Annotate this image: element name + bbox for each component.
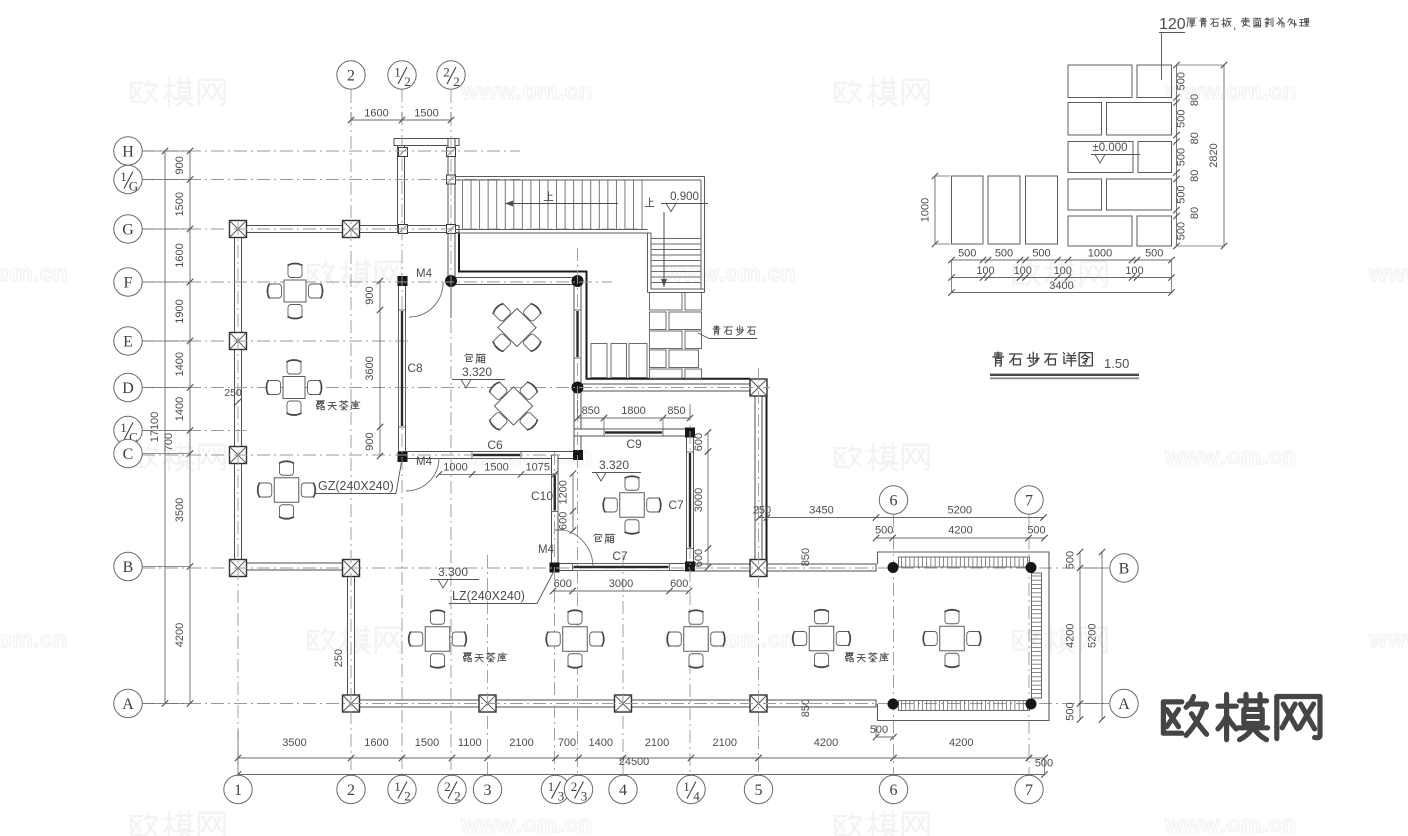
svg-text:1000: 1000 [443,462,467,474]
svg-text:500: 500 [1145,248,1163,260]
svg-text:GZ(240X240): GZ(240X240) [318,479,394,493]
porch post [447,148,456,157]
svg-text:2820: 2820 [1208,143,1220,167]
eave outline grid5 [766,396,768,564]
wall row B left [235,563,352,570]
svg-text:1: 1 [394,65,401,80]
svg-text:250: 250 [753,505,771,517]
svg-text:www.om.cn: www.om.cn [1164,443,1296,469]
column 1/C-col [230,447,247,464]
svg-text:C9: C9 [626,437,642,451]
svg-text:100: 100 [976,265,994,277]
grid circle 1/4 bottom [677,775,705,803]
dimension 850 1800 850 C9 [578,417,691,419]
svg-text:www.om.cn: www.om.cn [0,260,68,286]
svg-text:1: 1 [120,169,127,184]
svg-text:1400: 1400 [174,352,186,376]
wall row A [348,700,877,707]
svg-text:2: 2 [444,779,451,794]
grid line 4 [622,555,624,776]
svg-text:B: B [1119,561,1130,578]
svg-text:H: H [122,144,134,161]
svg-text:80: 80 [1189,170,1201,182]
svg-text:E: E [123,334,133,351]
dimension 250 3450 5200 [759,517,1044,519]
table C7 room [620,493,645,518]
svg-text:1: 1 [234,782,242,799]
corner post LZ [685,562,695,572]
svg-text:100: 100 [1054,265,1072,277]
label baoxiang C7 [594,534,615,544]
wall left grid1 [235,226,242,572]
pavilion outline [878,552,1050,721]
svg-text:5200: 5200 [948,505,972,517]
svg-text:80: 80 [1189,207,1201,219]
svg-text:4200: 4200 [174,623,186,647]
grid circle C left [114,439,142,467]
column 2/A [343,695,360,712]
svg-text:4200: 4200 [1065,624,1077,648]
svg-text:500: 500 [1035,758,1053,770]
detail dim 1000 left [934,176,936,244]
column 2/B [343,560,360,577]
svg-text:4200: 4200 [948,525,972,537]
svg-text:C8: C8 [407,361,423,375]
grid circle F left [114,268,142,296]
wall grid 2/3 [574,278,581,459]
svg-text:7: 7 [1025,493,1033,510]
svg-text:2: 2 [454,789,461,804]
door M4 C7-room [564,530,593,567]
dimension C8 window 900 3600 900 [379,281,381,456]
wall joint dot [445,275,457,287]
svg-text:2100: 2100 [645,737,669,749]
svg-text:C: C [123,446,134,463]
grid circle 6 bottom [879,775,907,803]
svg-text:www.om.cn: www.om.cn [460,811,592,836]
window C9 [604,429,663,436]
dimension 4200 4200 bottom right [759,757,1030,759]
grid row F [142,281,612,283]
svg-text:600: 600 [670,578,688,590]
grid row A [142,703,1108,705]
svg-text:3.320: 3.320 [462,365,492,379]
svg-text:600: 600 [693,549,705,567]
stair treads upper [463,180,643,230]
dimension C9 side 600 [707,433,709,452]
svg-text:1600: 1600 [364,737,388,749]
wall C8 left [399,281,406,459]
svg-text:600: 600 [554,578,572,590]
svg-text:,: , [1233,18,1236,32]
grid line 7 [1028,514,1030,776]
svg-text:3: 3 [558,789,565,804]
grid line 2/2 [450,90,452,776]
detail stone blocks [1068,65,1172,246]
pavilion railing top [899,557,1030,567]
svg-text:C7: C7 [612,549,628,563]
svg-text:A: A [122,696,134,713]
grid row 1/C [142,430,250,432]
svg-text:24500: 24500 [619,756,650,768]
grid circle A left [114,689,142,717]
svg-text:3500: 3500 [282,737,306,749]
corner post LZ [573,450,583,460]
grid line 5 [758,368,760,776]
corner post LZ [685,428,695,438]
svg-text:C7: C7 [668,498,684,512]
pavilion post dot [1026,562,1037,573]
label terrace hall [317,401,360,410]
wall row B right [694,564,877,571]
table hall 1 [284,280,306,302]
column 5/A [750,695,767,712]
svg-text:6: 6 [890,782,898,799]
window wall 2/3 [574,310,581,358]
svg-text:100: 100 [1125,265,1143,277]
svg-text:2100: 2100 [509,737,533,749]
svg-text:1500: 1500 [174,192,186,216]
svg-text:www.om.cn: www.om.cn [460,78,592,104]
column 5/B [750,560,767,577]
svg-text:F: F [124,275,133,292]
grid row H [142,150,520,152]
column 5/D [750,379,767,396]
door gap M4 grid1/3 [552,531,557,564]
column 3/A [479,695,496,712]
svg-text:www.om.cn: www.om.cn [663,626,795,652]
detail slabs left [952,176,1058,244]
svg-text:M4: M4 [416,456,433,468]
window C6 [472,452,521,459]
svg-text:M4: M4 [538,544,555,556]
svg-text:250: 250 [224,387,242,399]
grid circle 2 bottom [337,775,365,803]
svg-text:1800: 1800 [621,405,645,417]
grid row C [142,454,560,456]
label baoxiang C8 [465,354,486,364]
detail dim bottom 500s [952,259,1172,261]
grid circle 1/2 bottom [388,775,416,803]
wall row G [235,226,460,233]
grid circle 1/2 top [388,61,416,89]
grid row D [142,387,770,389]
grid line 3 [487,555,489,776]
svg-text:500: 500 [1176,222,1188,240]
svg-text:A: A [1118,696,1130,713]
svg-text:500: 500 [1176,72,1188,90]
column 2/G [343,221,360,238]
pavilion railing right [1032,573,1042,698]
label terrace mid [464,653,507,662]
detail dim 3400 [952,292,1172,294]
svg-text:700: 700 [163,433,175,451]
svg-text:100: 100 [1014,265,1032,277]
svg-text:1500: 1500 [484,462,508,474]
grid line 1 [237,222,239,776]
table terrace 2 [563,627,588,652]
grid circle 4 bottom [609,775,637,803]
left dimension chain [189,151,191,704]
dimension C7 right 3000 600 [707,452,709,568]
porch left wall [398,139,405,233]
grid circle B right [1078,567,1109,569]
svg-text:500: 500 [1027,525,1045,537]
svg-text:4200: 4200 [949,737,973,749]
corner post LZ [550,563,560,573]
door gap M4 row C [406,452,439,457]
svg-text:600: 600 [693,433,705,451]
dimension pavilion right 5200 [1101,552,1103,720]
window C8 [399,310,406,427]
porch top wall [394,139,459,146]
porch post [447,175,456,184]
porch right wall [448,139,455,282]
grid line 6 [893,514,895,776]
dimension pavilion right 500 4200 500 [1079,552,1081,720]
svg-text:www.om.cn: www.om.cn [1164,811,1296,836]
svg-text:5200: 5200 [1087,624,1099,648]
column 1/E [230,333,247,350]
svg-text:250: 250 [333,649,345,667]
svg-text:1: 1 [120,420,127,435]
svg-text:1.50: 1.50 [1104,356,1129,371]
svg-text:1200: 1200 [558,480,570,504]
label terrace right [846,653,889,662]
svg-text:www.om.cn: www.om.cn [0,626,68,652]
grid circle 1/C left [114,416,142,444]
stair outline [455,176,705,178]
dimension C10 1200 600 [572,474,574,531]
svg-text:G: G [122,222,134,239]
dimension 17100 overall [164,151,166,704]
detail title [993,352,1092,367]
svg-text:2: 2 [404,789,411,804]
svg-text:2: 2 [347,68,355,85]
wall joint dot [572,275,584,287]
svg-text:3.320: 3.320 [599,458,629,472]
svg-text:850: 850 [800,699,812,717]
detail dim right 500/80 [1176,65,1178,246]
grid circle 2/2 top [437,61,465,89]
svg-text:850: 850 [667,405,685,417]
grid circle 2/2 bottom [438,775,466,803]
svg-text:500: 500 [1032,248,1050,260]
grid circle H left [114,137,142,165]
bottom dimension chain [238,757,759,759]
column 1/G-col [230,221,247,238]
stair label up 1 [544,192,553,201]
grid circle 7 middle [1015,486,1043,514]
svg-text:1000: 1000 [1088,248,1112,260]
grid line 2/3 [577,248,579,776]
wall joint dot [572,382,584,394]
svg-text:1500: 1500 [415,737,439,749]
svg-text:2: 2 [443,65,450,80]
corner post LZ [398,452,408,462]
grid circle 7 bottom [1015,775,1043,803]
svg-text:500: 500 [995,248,1013,260]
grid row E [142,340,412,342]
svg-text:1: 1 [548,779,555,794]
wall row D [581,384,750,391]
svg-text:850: 850 [582,405,600,417]
svg-text:2100: 2100 [713,737,737,749]
grid line 1/4 [689,408,691,776]
dimension 500 4200 500 pavilion top [876,537,1045,539]
svg-text:900: 900 [364,286,376,304]
svg-text:B: B [123,559,134,576]
svg-text:80: 80 [1189,94,1201,106]
stair down line [663,212,665,287]
grid line 1/3 [554,452,556,776]
stair treads lower [651,239,701,283]
dimension 24500 overall [238,774,1045,776]
svg-text:1600: 1600 [364,108,388,120]
svg-text:6: 6 [890,493,898,510]
grid row B [142,567,1108,569]
svg-text:850: 850 [800,548,812,566]
table hall 2 [283,377,305,399]
porch post [399,225,408,234]
grid line 1/2 [401,89,403,776]
svg-text:120: 120 [1159,16,1186,33]
svg-text:500: 500 [875,525,893,537]
svg-text:3400: 3400 [1049,280,1073,292]
svg-text:M4: M4 [416,268,433,280]
svg-text:80: 80 [1189,132,1201,144]
wall C7 bottom [552,564,694,571]
grid circle G left [114,215,142,243]
svg-text:3500: 3500 [174,498,186,522]
stair up arrow [505,203,618,205]
wall grid 5 [755,384,762,567]
grid row 1/G [142,179,520,181]
pavilion railing bottom [899,701,1030,711]
svg-text:2: 2 [404,74,411,89]
eave outline stairs-south [459,233,750,379]
window C10 [552,474,559,512]
svg-text:4200: 4200 [814,737,838,749]
grid circle 1/G left [114,165,142,193]
table terrace 1 [425,627,450,652]
svg-text:500: 500 [870,724,888,736]
corner post LZ [398,276,408,286]
dimension 500 bottom right [1029,757,1045,759]
svg-text:C6: C6 [487,438,503,452]
logo oumuwang [1163,694,1320,739]
svg-text:3: 3 [581,789,588,804]
stone path bricks [650,293,702,379]
svg-text:0.900: 0.900 [670,191,699,203]
grid circle 1 bottom [224,775,252,803]
svg-text:3450: 3450 [809,505,833,517]
dimension 500 bottom pavilion [876,736,894,738]
svg-text:3.300: 3.300 [438,565,468,579]
grid circle A right [1078,703,1109,705]
pavilion post dot [1026,699,1037,710]
detail dim bottom 100s [952,277,1172,279]
grid line 2 [350,90,352,776]
porch post [447,225,456,234]
door M4 row F [409,283,443,317]
table terrace 4 [809,626,834,651]
svg-text:LZ(240X240): LZ(240X240) [452,589,525,603]
svg-text:1: 1 [394,779,401,794]
table C8 room 1 [477,287,558,368]
table terrace 5 [940,626,965,651]
svg-text:1075: 1075 [526,462,550,474]
svg-text:2: 2 [571,779,578,794]
pavilion post dot [888,562,899,573]
column 1/B [230,560,247,577]
svg-text:17100: 17100 [149,412,161,443]
svg-text:G: G [129,179,138,194]
svg-text:1400: 1400 [589,737,613,749]
svg-text:www.om.cn: www.om.cn [1368,260,1408,286]
svg-text:1600: 1600 [174,243,186,267]
table C8 room 2 [473,366,554,447]
svg-text:D: D [122,380,134,397]
dimension C6 1000 1500 1075 [439,473,555,475]
svg-text:1400: 1400 [174,397,186,421]
wall C9 top [574,429,694,436]
svg-text:4: 4 [619,782,627,799]
wall row F C8-top [449,278,581,285]
svg-text:2: 2 [453,74,460,89]
svg-text:500: 500 [1065,702,1077,720]
grid circle 3 bottom [473,775,501,803]
window C7 bottom [573,564,670,571]
svg-text:900: 900 [364,432,376,450]
door M4 row C [406,458,439,491]
grid row G [142,228,640,230]
window C7 right [687,452,694,549]
label stone path [713,326,756,336]
dimension C7 bottom 600 3000 600 [553,590,689,592]
svg-text:500: 500 [958,248,976,260]
grid circle 2/3 bottom [564,775,592,803]
grid circle 1/3 bottom [541,775,569,803]
svg-text:3600: 3600 [364,356,376,380]
grid circle 6 middle [879,486,907,514]
svg-text:1900: 1900 [174,299,186,323]
table terrace 3 [684,627,709,652]
grid circle D left [114,373,142,401]
wall C7 right [687,429,694,571]
grid circle B left [114,552,142,580]
svg-text:3000: 3000 [693,488,705,512]
porch post [399,148,408,157]
svg-text:1100: 1100 [458,737,482,749]
svg-text:500: 500 [1176,110,1188,128]
table hall 3 [274,478,299,503]
svg-text:500: 500 [1176,185,1188,203]
svg-text:3000: 3000 [609,578,633,590]
svg-text:4: 4 [693,789,700,804]
wall grid 2 terrace [348,563,355,710]
stone slabs vertical [591,344,647,378]
svg-text:±0.000: ±0.000 [1092,142,1127,154]
svg-text:900: 900 [174,156,186,174]
svg-text:www.om.cn: www.om.cn [1368,626,1408,652]
grid circle 5 bottom [744,775,772,803]
stair label up 2 [645,198,654,207]
dimension 1600 1500 top [351,119,451,121]
svg-text:1000: 1000 [920,198,932,222]
wall row C C6 [399,452,582,459]
svg-text:C10: C10 [531,489,553,503]
